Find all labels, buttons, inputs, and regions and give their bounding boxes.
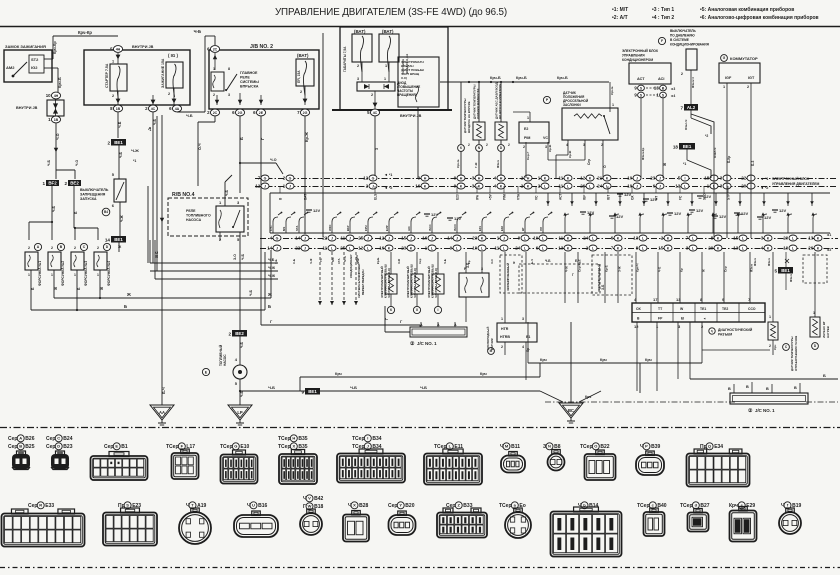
svg-text:18: 18	[673, 145, 679, 150]
svg-text:◄: ◄	[703, 317, 706, 321]
svg-text:В42: В42	[314, 496, 323, 502]
svg-text:15: 15	[733, 236, 738, 241]
svg-text:13: 13	[558, 246, 563, 251]
svg-text:Ч-Ж: Ч-Ж	[131, 148, 139, 153]
svg-text:РАЗЪЕМ: РАЗЪЕМ	[718, 333, 732, 337]
svg-text:9: 9	[301, 390, 304, 395]
svg-text:K: K	[481, 236, 484, 240]
svg-text:ЯЗел-Ч: ЯЗел-Ч	[691, 77, 695, 88]
svg-text:АМ2: АМ2	[6, 65, 15, 70]
svg-text:J: J	[349, 236, 351, 240]
svg-text:ЗАМОК ЗАЖИГАНИЯ: ЗАМОК ЗАЖИГАНИЯ	[5, 44, 46, 49]
svg-text:20: 20	[741, 184, 746, 189]
svg-text:Кр-Б: Кр-Б	[376, 258, 380, 264]
svg-text:Г-Ж: Г-Ж	[474, 162, 478, 168]
svg-text:13: 13	[676, 297, 681, 302]
svg-text:G: G	[264, 176, 267, 180]
svg-text:25: 25	[340, 246, 345, 251]
svg-text:K: K	[817, 246, 820, 250]
svg-text:12: 12	[580, 176, 585, 181]
svg-text:*1: *1	[683, 162, 686, 166]
svg-text:2: 2	[28, 246, 30, 250]
svg-text:+5V: +5V	[489, 193, 493, 200]
svg-text:А: А	[19, 436, 22, 441]
svg-text:З-Б: З-Б	[601, 284, 605, 290]
svg-text:12V: 12V	[431, 212, 438, 217]
svg-text:НАСОС: НАСОС	[223, 354, 227, 366]
svg-text:ЧАСТОТЫ ВРАЩ Х.Х): ЧАСТОТЫ ВРАЩ Х.Х)	[434, 268, 438, 298]
svg-text:Сер: Сер	[587, 159, 591, 165]
svg-text:ТСер: ТСер	[278, 436, 291, 442]
svg-text:Ч-Б: Ч-Б	[47, 159, 51, 166]
svg-text:Ч-Б: Ч-Б	[194, 29, 201, 34]
svg-text:ЛЛ: ЛЛ	[539, 227, 543, 231]
svg-text:В22: В22	[600, 444, 609, 450]
svg-text:ЯЗел-Ч: ЯЗел-Ч	[684, 120, 688, 130]
svg-text:20: 20	[708, 246, 713, 251]
svg-text:SТА: SТА	[295, 226, 299, 231]
svg-text:J: J	[367, 444, 369, 449]
svg-text:Крч-Ч: Крч-Ч	[636, 264, 640, 272]
svg-text:FР: FР	[658, 317, 663, 321]
svg-text:ВО ВПУСК КОЛЛЕКТОРЕ: ВО ВПУСК КОЛЛЕКТОРЕ	[498, 84, 502, 119]
svg-text:В24: В24	[63, 436, 72, 442]
svg-text:2: 2	[486, 143, 488, 147]
svg-text:G: G	[289, 176, 292, 180]
svg-text:Сер: Сер	[8, 444, 17, 450]
svg-text:5: 5	[774, 269, 777, 274]
svg-text:R/В NO.4: R/В NO.4	[172, 192, 195, 198]
svg-text:3: 3	[228, 93, 230, 97]
svg-text:Крч: Крч	[773, 344, 777, 350]
svg-text:◄1: ◄1	[826, 233, 831, 237]
svg-text:ОХЛАЖД ЖИДКОСТИ: ОХЛАЖД ЖИДКОСТИ	[476, 89, 480, 119]
svg-text:K: K	[527, 184, 530, 188]
svg-text:2: 2	[371, 93, 373, 97]
svg-text:13: 13	[633, 236, 638, 241]
svg-text:Крч-Б: Крч-Б	[610, 86, 614, 95]
svg-text:ЕLS: ЕLS	[374, 194, 378, 200]
svg-text:J: J	[264, 184, 266, 188]
svg-text:②: ②	[410, 341, 415, 347]
svg-text:А: А	[454, 323, 457, 327]
svg-text:13: 13	[733, 246, 738, 251]
svg-text:Ч-Б: Ч-Б	[420, 385, 427, 390]
svg-text:BE1: BE1	[114, 140, 123, 145]
svg-text:В: В	[728, 387, 731, 391]
svg-text:11: 11	[559, 184, 564, 189]
svg-text:K: K	[500, 184, 503, 188]
svg-text:З-Ж: З-Ж	[618, 266, 622, 272]
svg-text:2: 2	[228, 332, 231, 337]
svg-text:W2О: W2О	[355, 255, 359, 263]
svg-text:Г: Г	[385, 318, 389, 320]
svg-text:7: 7	[680, 106, 683, 111]
svg-text:H: H	[500, 176, 503, 180]
svg-text:14: 14	[447, 236, 452, 241]
svg-text:K: K	[667, 236, 670, 240]
svg-text:22: 22	[295, 246, 300, 251]
svg-text:О-Ч: О-Ч	[198, 143, 202, 150]
svg-text:ЭКРАНИРОВАННЫЙ: ЭКРАНИРОВАННЫЙ	[506, 263, 510, 291]
svg-text:K: K	[567, 176, 570, 180]
svg-text:BF2: BF2	[48, 181, 57, 186]
svg-text:10: 10	[783, 246, 788, 251]
svg-text:12V: 12V	[764, 215, 771, 220]
svg-text:В: В	[766, 387, 769, 391]
svg-text:Кр-Ж: Кр-Ж	[304, 132, 309, 142]
svg-text:◄ *1: ◄ *1	[760, 177, 768, 181]
svg-text:2: 2	[213, 93, 215, 97]
svg-text:Сер: Сер	[104, 444, 113, 450]
svg-text:10: 10	[46, 93, 51, 98]
svg-text:ЯЗел-Кр: ЯЗел-Кр	[641, 148, 645, 160]
svg-text:Х: Х	[292, 444, 295, 449]
svg-text:2G: 2G	[303, 111, 308, 115]
svg-text:Ч-Б: Ч-Б	[225, 189, 229, 196]
svg-text:АСТ: АСТ	[559, 194, 563, 200]
svg-text:I: I	[685, 176, 686, 180]
svg-text:1: 1	[97, 273, 99, 277]
svg-text:УПРАВЛЕНИЯ ДВИГАТЕЛЕМ: УПРАВЛЕНИЯ ДВИГАТЕЛЕМ	[772, 182, 819, 186]
svg-text:12: 12	[363, 176, 368, 181]
svg-text:16: 16	[379, 246, 384, 251]
svg-text:ВОЗДУХА НА ВПУСКЕ: ВОЗДУХА НА ВПУСКЕ	[467, 101, 471, 133]
svg-text:IG2: IG2	[31, 65, 38, 70]
svg-text:1B: 1B	[54, 118, 59, 122]
svg-text:J: J	[372, 184, 374, 188]
svg-text:ВЕ1: ВЕ1	[781, 268, 790, 273]
svg-text:BE1: BE1	[114, 237, 123, 242]
svg-text:K: K	[617, 246, 620, 250]
svg-text:ВЫКЛЮЧАТЕЛЬ: ВЫКЛЮЧАТЕЛЬ	[80, 188, 109, 192]
svg-text:В: В	[19, 444, 22, 449]
svg-text:Крч: Крч	[540, 358, 547, 362]
svg-text:Ч-Ж: Ч-Ж	[309, 258, 313, 264]
svg-text:Крч: Крч	[729, 503, 738, 509]
svg-text:ВС: ВС	[568, 408, 574, 413]
svg-text:◄3: ◄3	[670, 87, 675, 91]
svg-text:2E: 2E	[259, 111, 264, 115]
svg-text:КОНДИЦИОНЕРОМ: КОНДИЦИОНЕРОМ	[622, 58, 653, 62]
svg-text:ССО: ССО	[748, 307, 756, 311]
svg-text:ВЕ1: ВЕ1	[683, 144, 692, 149]
svg-text:3: 3	[545, 145, 547, 149]
svg-text:23: 23	[472, 236, 477, 241]
svg-text:СИСТЕМЫ: СИСТЕМЫ	[240, 80, 259, 84]
svg-text:2: 2	[51, 246, 53, 250]
svg-text:14: 14	[105, 238, 111, 243]
svg-text:Е34: Е34	[714, 444, 723, 450]
svg-text:ОХ: ОХ	[636, 307, 642, 311]
svg-text:K: K	[388, 246, 391, 250]
svg-text:РIМ: РIМ	[503, 194, 507, 200]
svg-text:12: 12	[379, 236, 384, 241]
svg-text:О: О	[594, 444, 597, 449]
svg-text:K: K	[567, 246, 570, 250]
svg-text:Е2: Е2	[524, 127, 528, 131]
svg-text:РIМ: РIМ	[524, 136, 530, 140]
svg-text:VС: VС	[543, 136, 548, 140]
svg-text:18: 18	[704, 176, 709, 181]
svg-text:2: 2	[747, 85, 749, 89]
svg-text:4C: 4C	[151, 107, 156, 111]
svg-text:12V: 12V	[696, 208, 703, 213]
svg-text:А: А	[437, 323, 440, 327]
svg-text:1B: 1B	[116, 107, 121, 111]
svg-text:ЗАПРЕЩЕНИЯ: ЗАПРЕЩЕНИЯ	[80, 193, 106, 197]
svg-text:Н: Н	[292, 436, 295, 441]
svg-text:◄ *1: ◄ *1	[384, 173, 392, 177]
svg-text:17: 17	[653, 297, 658, 302]
svg-text:Г: Г	[572, 273, 574, 277]
svg-text:Б-Кр: Б-Кр	[727, 156, 731, 163]
svg-text:Ч-Б: Ч-Б	[658, 266, 662, 272]
svg-text:10: 10	[627, 176, 632, 181]
svg-text:G: G	[234, 444, 237, 449]
svg-text:Е: Е	[115, 444, 118, 449]
svg-text:J: J	[410, 236, 412, 240]
svg-text:Сер-Кр: Сер-Кр	[578, 262, 582, 272]
svg-text:Е01: Е01	[478, 226, 482, 231]
svg-text:V: V	[308, 496, 311, 501]
svg-text:2: 2	[681, 72, 683, 76]
svg-text:Ч-Ж: Ч-Ж	[268, 274, 276, 278]
svg-text:ТСер: ТСер	[580, 444, 593, 450]
svg-text:K: K	[606, 176, 609, 180]
svg-text:21: 21	[597, 176, 602, 181]
svg-text:ВЕ1: ВЕ1	[308, 389, 317, 394]
svg-text:24: 24	[597, 184, 602, 189]
svg-text:Крч: Крч	[585, 395, 591, 399]
svg-text:СТА: СТА	[337, 258, 341, 264]
svg-text:11: 11	[559, 176, 564, 181]
svg-text:Ч-Б: Ч-Б	[241, 253, 245, 260]
svg-text:23: 23	[401, 246, 406, 251]
svg-text:1: 1	[42, 181, 45, 186]
svg-text:J/В NO. 2: J/В NO. 2	[250, 44, 273, 50]
svg-text:R: R	[39, 503, 42, 508]
svg-text:ЕFI, 15А: ЕFI, 15А	[297, 70, 301, 83]
svg-text:КОММУТАТОР: КОММУТАТОР	[730, 56, 758, 61]
svg-text:11: 11	[341, 236, 346, 241]
svg-text:26: 26	[808, 246, 813, 251]
svg-text:24: 24	[583, 236, 588, 241]
svg-text:H: H	[527, 176, 530, 180]
svg-text:LР: LР	[237, 410, 243, 415]
svg-text:З-О: З-О	[490, 258, 494, 264]
svg-text:ФОРСУНКА №1: ФОРСУНКА №1	[38, 261, 42, 286]
svg-text:Кр-Ж: Кр-Ж	[568, 150, 572, 158]
svg-text:1: 1	[28, 273, 30, 277]
svg-text:12V: 12V	[674, 211, 681, 216]
svg-text:Ч-О: Ч-О	[270, 158, 277, 162]
svg-text:16: 16	[415, 184, 420, 189]
svg-text:S: S	[126, 503, 129, 508]
svg-text:2: 2	[523, 145, 525, 149]
svg-text:Б: Б	[823, 373, 826, 378]
svg-text:4H: 4H	[116, 47, 121, 51]
svg-text:Крч: Крч	[645, 358, 652, 362]
svg-text:В СИСТЕМЕ: В СИСТЕМЕ	[670, 38, 689, 42]
svg-text:W: W	[308, 504, 312, 509]
svg-text:B: B	[662, 86, 665, 90]
svg-text:Крч: Крч	[480, 372, 487, 376]
svg-text:J/С NО. 1: J/С NО. 1	[417, 341, 437, 346]
svg-text:IGF: IGF	[725, 76, 732, 80]
svg-text:•5: Аналоговая комбинация при: •5: Аналоговая комбинация приборов	[700, 6, 794, 13]
svg-text:K: K	[717, 246, 720, 250]
svg-text:10: 10	[472, 246, 477, 251]
svg-text:11: 11	[495, 246, 500, 251]
svg-text:ФОРСУНКА №2: ФОРСУНКА №2	[61, 261, 65, 286]
svg-text:РЕЛЕ: РЕЛЕ	[186, 209, 196, 213]
svg-text:АL2: АL2	[687, 105, 696, 110]
svg-text:12: 12	[358, 246, 363, 251]
svg-text:H: H	[424, 176, 427, 180]
svg-text:J: J	[431, 236, 433, 240]
svg-text:3: 3	[375, 148, 379, 150]
svg-text:VС: VС	[535, 195, 539, 200]
svg-text:K: K	[589, 176, 592, 180]
svg-text:В28: В28	[359, 503, 368, 509]
svg-text:2C: 2C	[213, 47, 218, 51]
svg-text:12: 12	[255, 184, 260, 189]
svg-text:4H: 4H	[54, 94, 59, 98]
svg-text:26: 26	[580, 184, 585, 189]
svg-text:D: D	[57, 444, 60, 449]
svg-text:25: 25	[358, 236, 363, 241]
svg-text:НАГРЕВ: НАГРЕВ	[826, 326, 830, 338]
svg-text:Ч-Б: Ч-Б	[186, 114, 193, 118]
svg-text:N: N	[548, 444, 551, 449]
svg-text:*1: *1	[133, 159, 136, 163]
svg-text:Ч-Б: Ч-Б	[153, 118, 157, 125]
svg-text:•6: Аналогово-цифровая комбин: •6: Аналогово-цифровая комбинация прибор…	[700, 14, 819, 21]
svg-text:14: 14	[267, 246, 272, 251]
svg-text:2: 2	[74, 246, 76, 250]
svg-text:ЯЗел: ЯЗел	[767, 258, 771, 266]
svg-text:11: 11	[323, 246, 328, 251]
svg-text:З-О: З-О	[233, 254, 237, 260]
svg-text:ВПРЫСКА: ВПРЫСКА	[240, 85, 259, 89]
svg-text:*2: *2	[705, 134, 708, 138]
svg-text:УПРАВЛЕНИЯ: УПРАВЛЕНИЯ	[622, 54, 645, 58]
svg-text:С: С	[57, 436, 60, 441]
svg-text:А/С: А/С	[407, 226, 411, 231]
svg-text:АА: АА	[159, 410, 165, 415]
svg-text:ISСС: ISСС	[428, 224, 432, 231]
svg-text:ТЕ2: ТЕ2	[722, 307, 728, 311]
svg-text:1: 1	[384, 77, 386, 81]
svg-text:K: K	[567, 236, 570, 240]
svg-text:K: K	[767, 246, 770, 250]
svg-text:2: 2	[112, 94, 114, 98]
svg-text:ТСер: ТСер	[680, 503, 693, 509]
svg-text:Крч-Б: Крч-Б	[490, 76, 501, 80]
svg-text:IРА: IРА	[476, 194, 480, 200]
svg-text:ЭЛЕКТРОННЫЙ БЛОК: ЭЛЕКТРОННЫЙ БЛОК	[622, 49, 659, 53]
svg-text:ТСер: ТСер	[166, 444, 179, 450]
svg-text:В26: В26	[25, 436, 34, 442]
svg-text:С-Б: С-Б	[292, 259, 296, 264]
svg-text:НТRВ: НТRВ	[500, 335, 510, 339]
svg-text:J: J	[331, 236, 333, 240]
svg-text:ПЕРЕКЛ ПЕРЕДАЧ: ПЕРЕКЛ ПЕРЕДАЧ	[361, 270, 365, 295]
svg-text:В34: В34	[372, 436, 381, 442]
svg-text:K: K	[817, 236, 820, 240]
svg-text:НТR: НТR	[501, 327, 509, 331]
svg-text:J: J	[456, 236, 458, 240]
svg-text:10: 10	[533, 236, 538, 241]
svg-text:В25: В25	[25, 444, 34, 450]
svg-text:ISСО: ISСО	[453, 223, 457, 231]
svg-text:Е02: Е02	[500, 226, 504, 231]
svg-text:U: U	[252, 503, 255, 508]
svg-text:ВАТ: ВАТ	[304, 194, 308, 200]
svg-text:В16: В16	[258, 503, 267, 509]
svg-text:K: K	[460, 184, 463, 188]
svg-text:НТ: НТ	[521, 227, 525, 231]
svg-text:ЯЗел: ЯЗел	[753, 258, 757, 266]
svg-text:Ч-Б: Ч-Б	[249, 289, 253, 296]
svg-text:Крч-Б: Крч-Б	[456, 159, 460, 168]
svg-text:Ч-Б: Ч-Б	[443, 259, 447, 264]
svg-text:Ч-Б: Ч-Б	[350, 385, 357, 390]
svg-text:Б: Б	[268, 304, 271, 309]
svg-text:23: 23	[650, 176, 655, 181]
svg-text:ТОПЛИВНОГО: ТОПЛИВНОГО	[186, 214, 211, 218]
svg-text:Ж-Б: Ж-Б	[155, 251, 159, 259]
svg-text:W2О: W2О	[328, 224, 332, 231]
svg-text:3: 3	[522, 317, 524, 321]
svg-text:12V: 12V	[779, 208, 786, 213]
svg-text:4A: 4A	[175, 107, 180, 111]
svg-text:1: 1	[612, 103, 614, 107]
svg-text:22: 22	[741, 176, 746, 181]
svg-text:ВЕ2: ВЕ2	[235, 331, 244, 336]
svg-text:K: K	[717, 236, 720, 240]
svg-text:12V: 12V	[741, 211, 748, 216]
svg-text:(ВАТ): (ВАТ)	[354, 29, 366, 34]
svg-text:В1Р: В1Р	[346, 225, 350, 231]
svg-text:ВНУТРИ JB: ВНУТРИ JB	[16, 106, 38, 110]
svg-text:J: J	[304, 246, 306, 250]
svg-text:K: K	[410, 246, 413, 250]
svg-text:Крч-Б: Крч-Б	[557, 76, 568, 80]
svg-text:J: J	[503, 236, 505, 240]
svg-text:12V: 12V	[719, 214, 726, 219]
svg-text:FРU: FРU	[364, 225, 368, 231]
svg-text:2: 2	[300, 90, 302, 94]
svg-text:3: 3	[357, 77, 359, 81]
svg-text:G: G	[276, 236, 279, 240]
svg-text:ФОРСУНКА №3: ФОРСУНКА №3	[84, 261, 88, 286]
svg-text:ТСер: ТСер	[499, 503, 512, 509]
svg-text:12V: 12V	[624, 192, 631, 197]
svg-text:ВНУТРИ JB: ВНУТРИ JB	[132, 45, 154, 49]
svg-text:НАСОСА: НАСОСА	[186, 218, 202, 222]
svg-text:K: K	[544, 176, 547, 180]
svg-text:АСТ: АСТ	[637, 77, 645, 81]
svg-text:14: 14	[295, 236, 300, 241]
svg-text:В23: В23	[63, 444, 72, 450]
svg-text:ГЛС: ГЛС	[269, 226, 273, 232]
svg-text:АСI: АСI	[658, 77, 664, 81]
svg-text:X: X	[353, 503, 356, 508]
svg-text:З-Б: З-Б	[466, 262, 470, 268]
svg-text:4C: 4C	[373, 111, 378, 115]
